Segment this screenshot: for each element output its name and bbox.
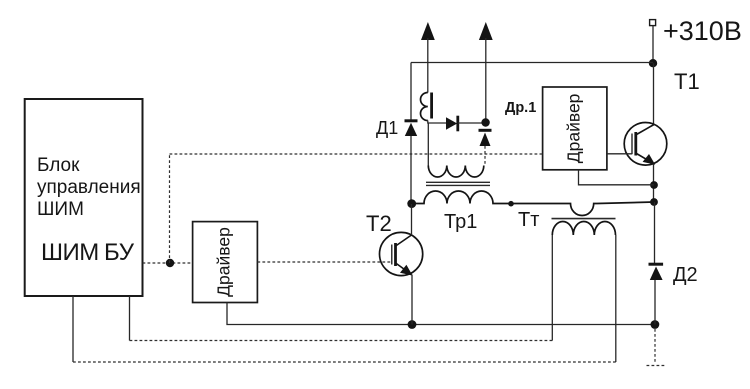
clamp diode VD2 (vertical, below node D) [479,130,492,146]
wire Д1 anode down to node C [410,136,412,204]
node Тр1 primary tap [508,201,514,207]
wire VD2 anode to Тр1 secondary (dashed) [484,146,486,166]
driver U1 (left Драйвер box) [193,222,258,303]
wire below Д2 node (dashed stub) [654,329,656,363]
diode Д1 [405,121,418,136]
node Д2 anode bottom [651,320,660,329]
wire feedback 1 (dashed y=340.5 to Тт secondary left) [130,340,553,342]
svg-text:Блок: Блок [37,155,80,176]
svg-text:БУ: БУ [104,239,135,266]
wire left driver output to T2 gate (dashed) [257,261,391,263]
wire node A up to PWM bus (dashed vertical) [169,154,171,263]
wire Тт secondary left down [551,235,553,341]
wire left driver bottom to emitter bus [227,303,412,325]
wire T2 emitter down to emitter bus [411,275,413,325]
transistor T2 (IGBT in circle) [380,232,423,275]
output arrow 1 [421,22,435,93]
terminal +310В (square) [650,20,656,26]
wire rail node B down to T1 collector [653,63,655,124]
wire top line y=62.5 to snubber corner [411,62,653,64]
dashed end mark [647,365,666,367]
wire right driver to T1 gate [607,153,632,155]
inductor Др.1 (choke) [421,93,432,121]
wire Тт secondary right down [615,235,617,362]
wire choke bottom to snubber diode [428,121,446,124]
control unit box БУ (Блок управления ШИМ) [25,99,143,296]
output arrow 2 [479,22,493,123]
wire +310В rail down to node B [652,26,654,63]
driver U2 (right Драйвер box) [543,87,607,170]
svg-text:Т2: Т2 [366,211,392,236]
node T1 emitter / Тт primary [650,198,658,206]
svg-text:Драйвер: Драйвер [563,94,583,164]
wire T1 emitter node down to Д2 [654,202,656,263]
node T1 emitter / driver return [650,181,658,189]
snubber diode VD (horizontal) [446,116,458,132]
node D (arrow 2 junction) [481,118,489,126]
svg-text:+310В: +310В [663,16,742,46]
wire node C down to T2 collector [411,204,413,235]
svg-text:Драйвер: Драйвер [214,227,234,297]
svg-text:ШИМ: ШИМ [41,239,99,266]
wire snubber corner down to Д1 [410,63,412,120]
wire choke corner down to Тр1 secondary left [427,123,429,166]
svg-text:ШИМ: ШИМ [37,199,84,220]
wire feedback 2 (dashed y=361 to Тт secondary right) [73,361,616,363]
wire snubber diode to node D [458,122,486,124]
current transformer Тт secondary winding [552,221,615,235]
wire БУ bottom feedback 2 (vertical x=73) [72,296,74,362]
wire emitter bus (solid y=324.5) [412,324,655,326]
current transformer Тт primary loop [566,202,654,216]
current transformer Тт core [552,218,616,220]
svg-text:Д1: Д1 [376,118,398,138]
svg-text:Т1: Т1 [674,69,700,94]
transformer Тр1 core [426,182,490,185]
svg-text:Д2: Д2 [673,264,698,286]
transformer Тр1 primary winding [412,191,566,204]
wire right driver bottom to emitter node [579,170,655,185]
svg-text:Тр1: Тр1 [444,211,477,233]
wire Д2 anode down to emitter bus [654,280,656,325]
node B (rail / top line junction) [649,59,657,67]
node A (junction dot at БУ output) [166,259,174,267]
node C (T2 collector / Тр1 primary) [407,199,416,208]
diode Д2 [649,264,664,280]
svg-text:Др.1: Др.1 [505,100,536,116]
wire БУ bottom feedback 1 (vertical x=129.5) [129,296,131,341]
transistor T1 (IGBT in circle) [624,123,667,166]
node T2 emitter bottom [408,320,417,329]
wire T1 emitter down [653,164,655,203]
wire PWM bus to right driver input (dashed horizontal y=154) [170,153,543,155]
svg-text:управления: управления [37,177,141,198]
wire БУ output to node A (dashed) [143,262,193,264]
svg-text:Тт: Тт [518,209,539,231]
transformer Тр1 secondary winding [428,166,484,178]
